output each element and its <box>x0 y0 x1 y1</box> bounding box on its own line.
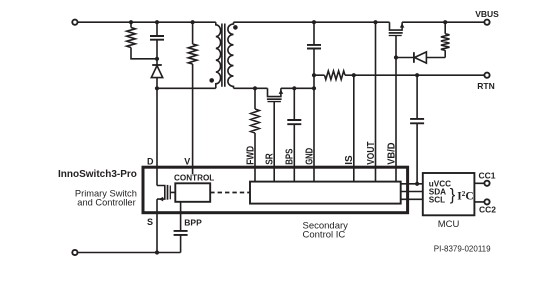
svg-text:CC1: CC1 <box>478 170 495 180</box>
svg-text:BPP: BPP <box>184 217 202 227</box>
svg-text:and Controller: and Controller <box>77 197 135 207</box>
svg-text:CONTROL: CONTROL <box>174 173 214 182</box>
svg-text:IS: IS <box>344 155 355 165</box>
svg-text:D: D <box>147 157 154 167</box>
svg-text:VB/D: VB/D <box>386 143 397 165</box>
svg-text:FWD: FWD <box>245 146 256 165</box>
svg-text:MCU: MCU <box>438 219 460 230</box>
svg-text:V: V <box>184 157 190 167</box>
svg-text:GND: GND <box>304 148 315 165</box>
svg-text:CC2: CC2 <box>479 205 496 215</box>
svg-text:I2C: I2C <box>457 189 474 203</box>
svg-text:RTN: RTN <box>477 81 494 91</box>
svg-text:Control IC: Control IC <box>303 230 346 241</box>
svg-text:VBUS: VBUS <box>475 9 499 19</box>
svg-text:S: S <box>147 217 153 227</box>
svg-text:}: } <box>450 186 456 204</box>
svg-text:VOUT: VOUT <box>366 142 377 165</box>
svg-text:InnoSwitch3-Pro: InnoSwitch3-Pro <box>58 169 137 180</box>
svg-text:SCL: SCL <box>429 195 445 204</box>
svg-text:PI-8379-020119: PI-8379-020119 <box>434 245 491 254</box>
svg-text:BPS: BPS <box>285 148 296 164</box>
svg-text:SR: SR <box>265 153 276 165</box>
